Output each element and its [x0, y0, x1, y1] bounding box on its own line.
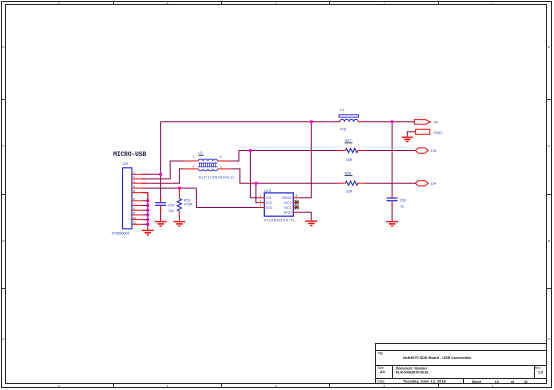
ground C60: [386, 222, 398, 227]
svg-text:DP: DP: [431, 182, 437, 186]
connector pins 1-5 stubs: [132, 174, 148, 201]
choke L5 windings top: [198, 159, 217, 161]
wire pin2 to choke pin1: [142, 161, 184, 179]
wire C59 bottom lead: [160, 208, 162, 221]
svg-text:Sheet: Sheet: [472, 380, 482, 384]
ground C59: [155, 222, 167, 227]
R57 stubs: [338, 150, 365, 152]
wire VBUS riser from pin1 junction up to rail: [160, 122, 162, 175]
U13 pin names: [266, 196, 272, 210]
wire R57 right to DN port: [365, 150, 415, 152]
svg-text:47Ω: 47Ω: [340, 127, 347, 131]
svg-text:IO2: IO2: [266, 201, 272, 205]
choke L5 core band: [198, 163, 217, 168]
resistor R59 zigzag: [177, 199, 181, 212]
frame zone letters right: [548, 45, 551, 341]
junction pin1/VBUS/C59: [159, 173, 162, 176]
wire R59 bottom to ground: [178, 216, 180, 221]
L4 coil: [340, 119, 358, 121]
U13 no-connect X marks: [295, 200, 299, 209]
svg-text:10: 10: [133, 216, 137, 220]
svg-text:11: 11: [524, 380, 528, 384]
wire choke pin3 to DP row: [231, 169, 338, 183]
svg-text:GND: GND: [284, 211, 293, 215]
svg-text:NxH3670 SDK Board - USB Connec: NxH3670 SDK Board - USB Connection: [403, 356, 472, 360]
wire VBUS rail: [161, 121, 335, 123]
svg-text:J29: J29: [122, 162, 128, 166]
svg-text:C59: C59: [168, 203, 175, 207]
svg-text:L5: L5: [198, 151, 202, 155]
wire U13 VBUS riser: [299, 122, 311, 198]
U13 pin numbers right: [296, 194, 298, 208]
wire choke pin2 to DN row: [231, 151, 338, 162]
svg-text:VBUS: VBUS: [282, 196, 293, 200]
frame zone numerals top: [58, 2, 494, 6]
junction shield bus pins 6-11: [146, 199, 149, 202]
wire VBUS rail right of L4 to 5V port: [364, 121, 414, 123]
wire U13 GND to ground: [299, 212, 311, 220]
label R58: [345, 172, 353, 176]
svg-text:DN: DN: [431, 149, 437, 153]
frame zone ticks top: [114, 2, 439, 5]
L4 bar: [339, 115, 359, 117]
choke L5 stubs: [184, 161, 231, 169]
label L5: [198, 151, 203, 155]
svg-text:33R: 33R: [346, 158, 353, 162]
junction DN / IO1 branch: [249, 149, 252, 152]
frame zone letters left: [2, 45, 5, 341]
svg-text:DLP11SN900HL2L: DLP11SN900HL2L: [199, 176, 236, 180]
choke L5 windings bottom: [198, 169, 217, 171]
svg-text:IO1: IO1: [266, 196, 272, 200]
connector pin numbers: [133, 171, 137, 225]
U13 left stubs: [259, 198, 264, 208]
svg-text:5V: 5V: [434, 120, 439, 124]
wire pin1 to junction: [142, 173, 161, 175]
svg-text:R58: R58: [345, 172, 352, 176]
ground connector shield: [142, 230, 154, 235]
svg-text:U13: U13: [264, 189, 271, 193]
svg-text:L4: L4: [340, 108, 344, 112]
connector J29 body: [123, 168, 132, 229]
R58 stubs: [338, 182, 365, 184]
U13 right stubs: [293, 198, 299, 213]
svg-text:C60: C60: [400, 199, 407, 203]
svg-text:Tuesday, June 12, 2018: Tuesday, June 12, 2018: [403, 379, 447, 384]
svg-text:MICRO-USB: MICRO-USB: [113, 151, 146, 158]
junction DP / IO2 branch: [255, 182, 258, 185]
wire DP branch to U13 IO2: [256, 183, 259, 202]
svg-text:NC1: NC1: [284, 206, 292, 210]
junction VBUS rail / U13 riser: [310, 120, 313, 123]
svg-text:475890001: 475890001: [112, 232, 130, 236]
label R57: [345, 139, 353, 143]
svg-text:A: A: [2, 337, 4, 341]
frame zone ticks left: [2, 100, 6, 289]
svg-text:NC2: NC2: [284, 201, 292, 205]
svg-text:33R: 33R: [346, 189, 353, 193]
R58 zigzag: [345, 181, 357, 185]
svg-text:1u: 1u: [400, 204, 404, 208]
ground R59: [174, 222, 186, 227]
wire pin4 row to corner: [142, 187, 197, 189]
svg-text:A: A: [548, 337, 550, 341]
frame zone numerals bottom: [58, 384, 494, 388]
wire C59 top lead: [160, 174, 162, 200]
U13 body: [264, 193, 293, 216]
svg-text:Date:: Date:: [377, 380, 385, 384]
U13 pin numbers left: [260, 194, 262, 208]
svg-text:R57: R57: [345, 139, 352, 143]
connector pin 6-11 wires to bus: [142, 201, 148, 225]
frame zone ticks right: [547, 100, 552, 289]
wire pin3 to choke pin4: [142, 169, 184, 183]
wire pin5 shield bus: [142, 193, 148, 230]
connector pins 6-11 stubs: [132, 201, 142, 225]
L4 stubs: [335, 121, 364, 123]
choke L5 pin numbers: [192, 155, 222, 169]
svg-text:10: 10: [495, 380, 499, 384]
wire GND port to ground: [407, 132, 415, 137]
svg-text:Title: Title: [377, 351, 383, 355]
svg-text:6: 6: [296, 194, 298, 198]
svg-text:11: 11: [133, 221, 136, 225]
svg-text:B: B: [548, 239, 550, 243]
R57 zigzag: [345, 148, 357, 152]
svg-text:470R: 470R: [184, 203, 193, 207]
svg-text:B: B: [2, 239, 4, 243]
junction pin4 / R59: [178, 187, 181, 190]
wire C60 bottom lead: [391, 203, 393, 221]
svg-text:Rev: Rev: [535, 366, 541, 370]
svg-text:PLR-NXH3670-0016: PLR-NXH3670-0016: [396, 370, 428, 374]
junction VBUS rail / C60: [391, 120, 394, 123]
wire ID net down and to U13 IO3: [196, 188, 259, 207]
svg-text:GND: GND: [434, 131, 443, 135]
svg-text:10n: 10n: [168, 209, 174, 213]
frame zone ticks bottom: [114, 384, 439, 388]
svg-text:1.0: 1.0: [538, 370, 543, 374]
wire DN branch to U13 IO1: [250, 151, 259, 198]
svg-text:PUSBM5X4-TL: PUSBM5X4-TL: [264, 218, 296, 222]
ground U13 GND: [305, 221, 317, 226]
wire C60 branch: [391, 122, 393, 196]
svg-text:IO3: IO3: [266, 206, 272, 210]
wire R58 right to DP port: [365, 182, 415, 184]
